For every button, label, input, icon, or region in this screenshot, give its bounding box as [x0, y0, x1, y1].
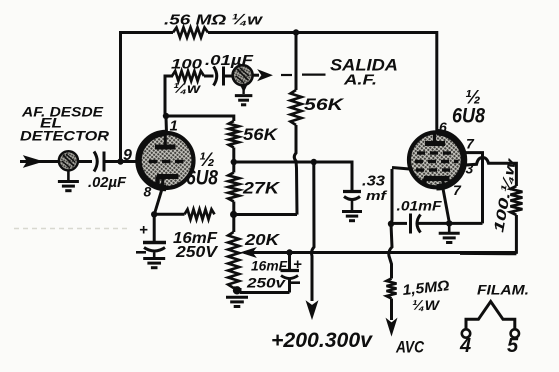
svg-text:.01µF: .01µF [205, 52, 254, 69]
svg-text:+: + [139, 222, 148, 239]
svg-text:AVC: AVC [395, 338, 424, 357]
svg-text:mf: mf [366, 188, 388, 203]
svg-text:.02µF: .02µF [88, 174, 127, 191]
svg-text:56K: 56K [243, 125, 279, 144]
svg-text:¼w: ¼w [173, 80, 201, 96]
svg-text:56K: 56K [304, 95, 345, 114]
svg-text:.33: .33 [362, 173, 386, 190]
svg-text:16mF: 16mF [251, 258, 287, 274]
svg-text:8: 8 [144, 184, 152, 200]
svg-text:4: 4 [459, 335, 471, 357]
svg-text:6U8: 6U8 [452, 105, 485, 128]
svg-text:A.F.: A.F. [343, 72, 377, 89]
svg-text:.01mF: .01mF [397, 199, 443, 214]
svg-text:1: 1 [170, 118, 178, 135]
svg-text:20K: 20K [244, 232, 281, 249]
svg-text:DETECTOR: DETECTOR [20, 128, 110, 144]
svg-text:9: 9 [123, 147, 132, 164]
svg-text:¼W: ¼W [412, 298, 440, 313]
svg-text:FILAM.: FILAM. [477, 283, 529, 298]
svg-text:6: 6 [439, 119, 447, 135]
svg-text:250V: 250V [175, 244, 219, 261]
svg-text:100: 100 [171, 56, 202, 72]
svg-text:7: 7 [466, 136, 475, 152]
svg-text:.56 MΩ ¼w: .56 MΩ ¼w [164, 12, 264, 29]
svg-text:250v: 250v [246, 275, 287, 291]
svg-text:7: 7 [453, 182, 462, 198]
svg-text:AF. DESDE: AF. DESDE [21, 104, 104, 120]
svg-text:+: + [293, 256, 302, 273]
svg-text:3: 3 [466, 161, 474, 177]
svg-text:27K: 27K [242, 179, 281, 198]
svg-text:6U8: 6U8 [186, 167, 218, 190]
svg-text:+200.300v: +200.300v [271, 329, 373, 352]
svg-text:5: 5 [507, 335, 519, 357]
